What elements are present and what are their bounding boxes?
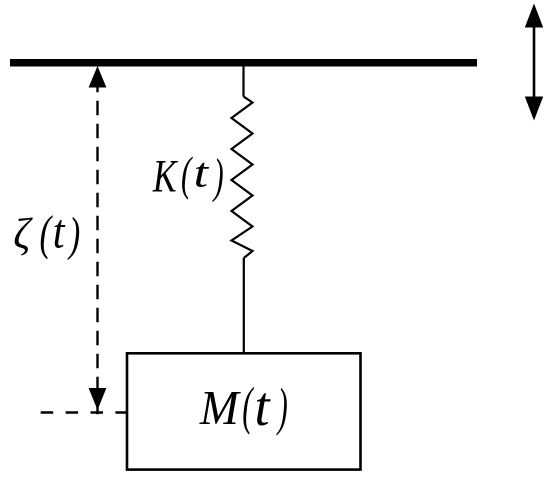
svg-text:t: t <box>255 375 272 437</box>
spring K(t) <box>232 97 253 259</box>
svg-text:M: M <box>199 382 241 435</box>
svg-text:t: t <box>194 150 210 197</box>
svg-text:ζ: ζ <box>13 211 33 259</box>
label K(t) <box>152 147 224 203</box>
svg-text:t: t <box>53 204 66 258</box>
svg-text:): ) <box>212 148 223 202</box>
svg-text:(: ( <box>40 206 54 260</box>
svg-text:): ) <box>276 379 288 437</box>
label zeta(t) <box>13 204 80 261</box>
dashed reference line <box>41 411 127 413</box>
double-headed arrow (vertical motion indicator) <box>525 4 543 121</box>
svg-text:): ) <box>67 207 80 261</box>
svg-text:K: K <box>152 150 178 202</box>
mass M(t) box <box>127 353 361 469</box>
dashed displacement arrow zeta(t) <box>89 66 107 414</box>
wire (spring bottom stub) <box>243 258 245 353</box>
svg-text:(: ( <box>181 147 193 200</box>
label M(t) <box>199 375 288 437</box>
wire (spring top stub) <box>242 64 244 97</box>
ceiling (fixed support) <box>10 59 477 67</box>
